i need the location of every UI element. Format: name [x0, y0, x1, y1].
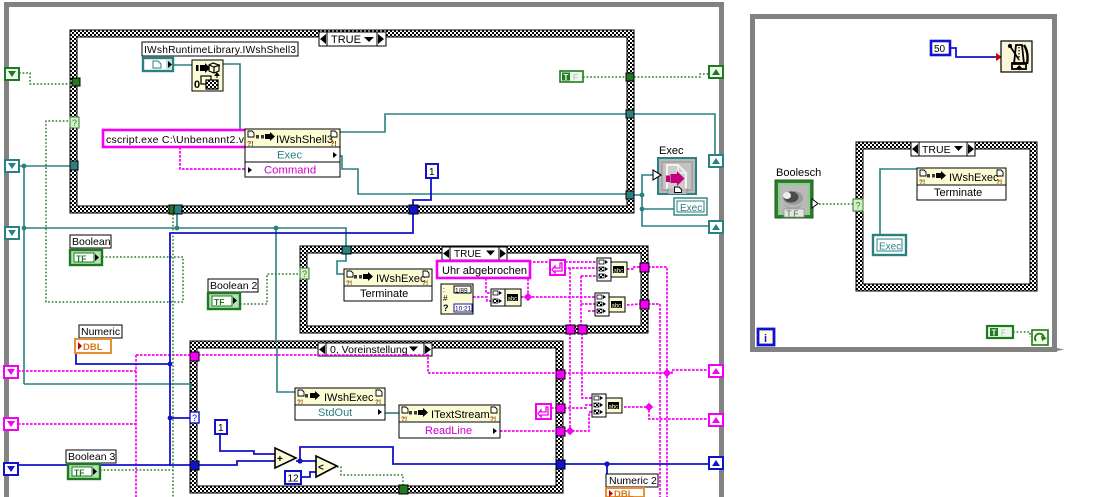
- wire: case2 right tunnel2 long vertical: [648, 304, 660, 497]
- svg-text:+: +: [277, 454, 283, 465]
- svg-text:abc: abc: [508, 297, 518, 303]
- concatenate strings node C: [595, 293, 625, 316]
- shift register right pink 2: [709, 414, 723, 426]
- wire: Exec shift register left trunk: [19, 165, 70, 167]
- svg-text:IWshExec: IWshExec: [376, 273, 426, 285]
- wire: case2 bottom tunnel1 vertical to ReadLine line: [569, 333, 571, 431]
- property node StdOut (IWshExec): [295, 388, 385, 420]
- invoke node U3 IWshExec Terminate (right loop): [917, 168, 1006, 200]
- label Numeric 2: [606, 474, 658, 487]
- less-than node: [316, 456, 337, 477]
- wire: tunnel to add input: [198, 461, 275, 465]
- shift register left pink 1: [4, 366, 18, 378]
- invoke node ITextStream ReadLine: [399, 405, 500, 438]
- wire: T to loop condition: [1013, 332, 1030, 337]
- Wait Until Next ms Multiple (metronome) node: [1001, 41, 1032, 72]
- wire: invoke node Exec output to case1 tunnel: [340, 156, 630, 194]
- case selector label 3 "0, Voreinstellung": [318, 343, 432, 356]
- tunnel: case1 left teal in: [70, 161, 78, 170]
- svg-text:?: ?: [72, 118, 77, 128]
- wire: Boolean 3 dotted to vertical: [100, 469, 173, 471]
- wire: concat D output to pink shift register 2: [624, 407, 710, 419]
- case selector label 2 TRUE: [442, 247, 507, 260]
- case structure 3 (0, Voreinstellung) checkered border: [190, 341, 563, 493]
- svg-text:abc: abc: [612, 304, 622, 310]
- shift register right pink 1: [709, 365, 723, 377]
- shift register right teal 2: [709, 221, 723, 233]
- Boolean 2 TF terminal: [208, 293, 240, 309]
- svg-text:Exec: Exec: [277, 150, 302, 162]
- Numeric 2 DBL terminal (clipped at bottom): [606, 488, 644, 497]
- Boolean 3 TF terminal: [68, 464, 100, 479]
- numeric constant 1 (case1): [426, 164, 438, 178]
- wire: boolean local Boolean to case1 selector (dotted green): [46, 121, 183, 302]
- svg-text:?!: ?!: [375, 399, 381, 406]
- svg-text:?: ?: [192, 413, 197, 423]
- wire: add output up over to right tunnel: [300, 447, 558, 464]
- Numeric DBL terminal: [75, 339, 111, 353]
- wire: Exec control to invoke node (right loop): [880, 169, 917, 235]
- wire: case2 bottom tunnel2 vertical to concat D input: [582, 333, 592, 398]
- svg-text:ITextStream: ITextStream: [431, 409, 490, 421]
- case3 selector terminal ? (blue): [190, 412, 199, 423]
- svg-text:Boolean 2: Boolean 2: [210, 280, 257, 292]
- wire: invoke node refnum out to case1 right tunnel then shift register: [340, 114, 630, 132]
- tunnel: case1 bottom dual green/teal: [169, 205, 182, 214]
- svg-text:DBL: DBL: [83, 342, 103, 353]
- label IWshRuntimeLibrary.IWshShell3: [142, 42, 298, 56]
- wire: pink shift register 1 to case3 left tunnel: [18, 370, 136, 372]
- svg-text:?!: ?!: [346, 280, 352, 287]
- string constant cscript.exe: [103, 130, 248, 147]
- svg-text:Terminate: Terminate: [934, 187, 982, 199]
- case selector label 4 TRUE: [911, 142, 975, 156]
- wire: case2 right tunnel1 long vertical: [648, 267, 667, 497]
- svg-text:IWshExec: IWshExec: [949, 172, 999, 184]
- tunnel: case3 right blue: [556, 460, 565, 469]
- case selector label 1 TRUE: [319, 32, 386, 46]
- svg-text:Numeric: Numeric: [81, 326, 120, 338]
- case2 selector terminal ?: [300, 268, 309, 279]
- numeric constant 50: [931, 41, 950, 55]
- case structure 1 (TRUE) checkered border: [70, 30, 634, 213]
- svg-text:TRUE: TRUE: [922, 144, 951, 156]
- svg-text:?!: ?!: [297, 399, 303, 406]
- svg-text:?!: ?!: [919, 179, 925, 186]
- svg-text:?!: ?!: [401, 416, 407, 423]
- wire: blue trunk from tunnel to case3 selector: [170, 213, 413, 466]
- svg-text:Boolesch: Boolesch: [776, 167, 821, 179]
- wire: Automation Open to invoke node IWshShell3 refnum input: [223, 64, 245, 138]
- string constant Uhr abgebrochen: [437, 261, 530, 278]
- case1 selector terminal ?: [70, 117, 79, 128]
- svg-text:?: ?: [856, 201, 861, 211]
- while loop 2 border (right loop, grey): [750, 14, 1064, 352]
- Boolesch boolean control (button icon): [775, 180, 818, 219]
- svg-text:?: ?: [302, 269, 307, 279]
- svg-text:◆: ◆: [1016, 65, 1023, 72]
- tunnel: case3 left pink: [190, 352, 199, 361]
- svg-text:abc: abc: [614, 269, 624, 275]
- tunnel: case1 bottom blue: [409, 205, 418, 214]
- svg-text:TF: TF: [74, 468, 84, 478]
- svg-text:Uhr abgebrochen: Uhr abgebrochen: [442, 265, 527, 277]
- svg-text::: :: [443, 287, 445, 294]
- case structure 4 (TRUE, right loop) checkered border: [856, 142, 1037, 291]
- concatenate strings node D: [592, 394, 622, 417]
- concatenate strings node B: [597, 258, 627, 281]
- tunnel: case3 right pink 3: [556, 427, 565, 436]
- loop condition terminal (continue if true): [1032, 330, 1048, 345]
- numeric constant 12: [285, 471, 301, 485]
- wire: pink net inside case2: [486, 278, 491, 293]
- svg-text:?!: ?!: [996, 179, 1002, 186]
- automation refnum constant: [143, 58, 173, 71]
- wire: StdOut output to ITextStream invoke node: [385, 412, 399, 414]
- wire: less-than output to case3 bottom tunnel: [337, 467, 403, 486]
- svg-text:0: 0: [194, 79, 200, 91]
- EOL constant (case2): [550, 260, 565, 275]
- svg-text:ReadLine: ReadLine: [425, 425, 472, 437]
- svg-text:12: 12: [288, 474, 300, 485]
- svg-text:<: <: [318, 463, 324, 474]
- svg-text:F: F: [573, 73, 578, 82]
- svg-text:TF: TF: [76, 254, 86, 264]
- numeric constant 1 (case3): [215, 420, 227, 434]
- svg-text:Terminate: Terminate: [360, 288, 408, 300]
- svg-text:abc: abc: [609, 405, 619, 411]
- wire: T constant to case1 tunnel to green shift register: [583, 76, 626, 78]
- tunnel: case3 right pink 1: [556, 370, 565, 379]
- wire: Exec tunnel to Exec indicator / Exec local / shift register: [634, 195, 710, 226]
- svg-text:Boolean: Boolean: [72, 236, 111, 248]
- svg-text:cscript.exe C:\Unbenannt2.v: cscript.exe C:\Unbenannt2.v: [106, 134, 245, 146]
- svg-text:TF: TF: [214, 297, 224, 307]
- wire: case3 tunnel down to StdOut property node: [277, 349, 295, 392]
- svg-text:i: i: [764, 333, 767, 345]
- svg-text:T: T: [564, 73, 569, 82]
- case structure 2 (TRUE) checkered border: [300, 246, 648, 333]
- T constant (right loop): [987, 326, 1013, 338]
- invoke node U1 IWshShell3 (Exec / Command): [245, 129, 340, 177]
- wire: numeric constant 1 to case1 bottom tunnel: [413, 178, 431, 206]
- label Numeric: [79, 325, 122, 338]
- wire: pink shift register 2 feed: [18, 423, 136, 425]
- tunnel: case2 right pink 2: [640, 300, 649, 309]
- svg-text:TRUE: TRUE: [454, 249, 482, 260]
- svg-text:Numeric 2: Numeric 2: [609, 475, 657, 487]
- wire: 50 to wait node: [950, 48, 997, 57]
- svg-text:1: 1: [429, 167, 435, 178]
- wire: string constant to Command input (pink): [180, 147, 245, 169]
- shift register left teal 1: [5, 160, 19, 172]
- svg-text:?!: ?!: [422, 280, 428, 287]
- svg-text:Exec: Exec: [879, 242, 901, 253]
- svg-text:T F: T F: [787, 210, 799, 219]
- svg-text:1/89: 1/89: [455, 288, 468, 295]
- svg-text:DBL: DBL: [614, 489, 634, 497]
- shift register left teal 2: [5, 227, 19, 239]
- tunnel: case2 top teal: [342, 246, 351, 254]
- wire: EOL constant case3 to tunnel2 and concat: [551, 407, 556, 409]
- tunnel: case2 bottom pink 1: [566, 325, 575, 334]
- shift register right blue: [709, 457, 723, 469]
- wire: pink inside case3 to right tunnel: [198, 355, 556, 373]
- svg-text:10:21: 10:21: [455, 306, 472, 313]
- svg-text:T: T: [992, 329, 997, 338]
- while loop 1 border (left big loop, grey): [4, 2, 724, 497]
- svg-text:IWshExec: IWshExec: [324, 392, 374, 404]
- T constant (left loop): [560, 71, 583, 82]
- wire: Boolesch to case4 selector: [819, 203, 853, 205]
- Exec refnum local variable: [674, 198, 707, 215]
- wire: automation refnum constant to Automation Open: [173, 64, 192, 66]
- wire: green dotted vertical from case1 bottom tunnel: [172, 214, 174, 497]
- svg-text:?!: ?!: [490, 416, 496, 423]
- svg-text:F: F: [1001, 329, 1006, 338]
- svg-text:Exec: Exec: [680, 203, 702, 214]
- svg-text:IWshShell3: IWshShell3: [276, 134, 333, 146]
- label Boolean: [70, 235, 111, 248]
- Get Date/Time String node: [441, 284, 473, 314]
- Boolean TF terminal: [70, 250, 102, 265]
- case4 selector terminal ?: [853, 199, 863, 211]
- tunnel: case3 bottom green: [399, 485, 408, 494]
- invoke node U2 IWshExec Terminate: [344, 269, 432, 301]
- Exec refnum control (right loop): [873, 235, 906, 255]
- tunnel: case3 left blue: [190, 461, 199, 470]
- iteration terminal i: [758, 329, 774, 345]
- svg-text:?: ?: [443, 303, 449, 313]
- wire: blue shift register to case3 left tunnel: [18, 464, 192, 466]
- tunnel: case1 left green in: [72, 78, 80, 86]
- EOL constant (case3): [536, 404, 551, 419]
- coercion dot (red arrow): [996, 53, 1002, 61]
- label Boolean 3: [66, 450, 116, 463]
- wire: Boolean 2 to case2 selector: [240, 274, 300, 304]
- wire: case2 tunnel to invoke node IWshExec refnum: [337, 254, 346, 274]
- tunnel: case1 right Exec out: [626, 191, 634, 199]
- tunnel: case3 right pink 2: [556, 404, 565, 413]
- tunnel: case2 right pink 1: [640, 263, 649, 272]
- svg-text:Boolean 3: Boolean 3: [68, 451, 115, 463]
- tunnel: case1 right boolean out: [626, 73, 634, 81]
- tunnel: case1 right refnum out: [626, 110, 634, 118]
- wire: case3 right tunnel to Numeric 2 and blue shift register: [565, 463, 710, 465]
- wire: ReadLine output to tunnel3 and concat input: [500, 430, 556, 432]
- wire: pink tunnel1 to right shift register and long vertical: [564, 372, 667, 374]
- label Boolean 2: [208, 279, 258, 292]
- concatenate strings node A: [491, 289, 521, 306]
- wire: green shift register to case1 tunnel: [19, 73, 72, 84]
- Automation Open node: [192, 60, 223, 91]
- shift register right green: [709, 66, 723, 78]
- svg-text:50: 50: [934, 44, 946, 55]
- add node: [275, 448, 296, 468]
- wire: constant 1 to add node: [220, 434, 275, 454]
- shift register left green: [5, 68, 19, 80]
- shift register left pink 2: [4, 418, 18, 430]
- svg-text:1: 1: [218, 423, 224, 434]
- svg-text:IWshRuntimeLibrary.IWshShell3: IWshRuntimeLibrary.IWshShell3: [144, 45, 296, 56]
- Exec indicator icon: [653, 145, 696, 194]
- svg-text:Exec: Exec: [659, 145, 684, 157]
- shift register left blue: [4, 463, 18, 475]
- wire: constant 12 to less-than: [301, 472, 316, 477]
- svg-text:StdOut: StdOut: [318, 407, 352, 419]
- tunnel: case2 bottom pink 2: [578, 325, 587, 334]
- svg-text:#: #: [443, 294, 448, 303]
- shift register right teal 1: [709, 155, 723, 167]
- svg-text:TRUE: TRUE: [331, 34, 361, 46]
- svg-text:Command: Command: [264, 165, 316, 177]
